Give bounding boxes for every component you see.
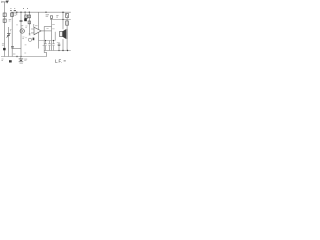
loudspeaker LS1 xyxy=(60,29,68,39)
capacitor ticks right of R1 xyxy=(14,14,16,15)
wire U1 output xyxy=(41,30,51,32)
node H xyxy=(16,56,17,57)
label C1 xyxy=(2,44,5,45)
label near Q1 right xyxy=(25,26,27,27)
variable capacitor VC1 xyxy=(7,33,11,38)
node F xyxy=(62,50,63,51)
label near L2 xyxy=(9,20,12,21)
label R7 xyxy=(56,16,58,17)
capacitor C6 xyxy=(52,41,54,51)
coil L1 xyxy=(3,13,6,17)
node K xyxy=(20,12,21,13)
wire feedback top xyxy=(44,26,51,28)
label small left xyxy=(16,24,18,26)
caption dash xyxy=(64,60,66,62)
transistor Q2 xyxy=(28,38,31,41)
capacitor C5 xyxy=(48,41,50,51)
label dots x29 xyxy=(29,34,31,35)
label below Q1 xyxy=(22,37,24,38)
coil L2 xyxy=(3,19,6,22)
label above ground rail xyxy=(13,53,15,55)
wire mid horizontal xyxy=(39,40,56,42)
resistor R1 xyxy=(11,13,14,17)
capacitor C9 blob xyxy=(33,38,35,41)
label dots top xyxy=(10,7,15,9)
label below battery xyxy=(20,62,23,64)
node J1 xyxy=(10,10,11,11)
wire drop x51.5 xyxy=(51,18,53,50)
node B xyxy=(24,12,25,13)
capacitor C1 polarity blob xyxy=(3,48,6,50)
wire rail jog xyxy=(44,53,46,57)
wire U1 inputs xyxy=(31,29,34,33)
label near x51 top xyxy=(52,24,55,26)
label battery value xyxy=(24,59,27,60)
node M xyxy=(58,50,59,51)
node G xyxy=(67,50,68,51)
right ground rail xyxy=(44,50,71,52)
wire drop x29.3 xyxy=(28,12,30,35)
label below Q2 xyxy=(25,44,27,46)
battery B1 xyxy=(19,57,24,62)
node D xyxy=(62,11,64,13)
capacitor C3 electrolytic body xyxy=(24,18,27,21)
trimmer VR1 xyxy=(25,12,28,18)
transistor Q1 xyxy=(20,29,24,33)
diode D1 xyxy=(66,13,69,17)
capacitor C7 xyxy=(57,42,61,51)
wire speaker return xyxy=(62,39,64,50)
wire drop x21 xyxy=(20,12,22,56)
capacitor C4 xyxy=(44,41,46,51)
wire inv input top xyxy=(33,24,35,27)
label dash above rail xyxy=(14,10,16,12)
node L xyxy=(16,12,17,13)
node E xyxy=(62,19,63,20)
resistor R6 xyxy=(66,21,69,25)
wire antenna down xyxy=(4,2,6,57)
label IC1 xyxy=(35,25,38,27)
label near x51 mid xyxy=(46,28,54,30)
node N xyxy=(45,12,46,13)
resistor R3 xyxy=(28,15,30,18)
label plus C3 xyxy=(23,8,28,10)
left ground rail xyxy=(1,56,47,58)
label minus terminal xyxy=(2,59,4,60)
switch S1 xyxy=(9,60,12,62)
label out xyxy=(43,45,45,47)
label R2 xyxy=(21,26,24,27)
label dots x26 xyxy=(25,37,26,39)
resistor R8 xyxy=(50,16,52,18)
wire drop x38.5 xyxy=(38,12,40,48)
wire left drop xyxy=(11,12,13,56)
capacitor C8 ticks xyxy=(11,47,14,48)
wire speaker feed xyxy=(62,12,64,29)
wire x67 through xyxy=(66,18,68,51)
label R5 xyxy=(46,15,49,16)
label mid small xyxy=(24,52,26,54)
node C xyxy=(29,12,30,13)
antenna AE1 xyxy=(2,1,9,4)
resistor R4 xyxy=(28,21,30,24)
wire mid-left link xyxy=(12,48,21,50)
node I xyxy=(20,56,21,57)
op-amp U1 xyxy=(34,27,41,35)
capacitor C2 xyxy=(20,20,23,21)
node C4 top xyxy=(45,40,46,41)
wire output drop x44.2 xyxy=(43,27,45,53)
label left of drop xyxy=(10,30,12,31)
wire tuning branch xyxy=(8,27,10,57)
top supply rail xyxy=(11,11,71,13)
wire drop x55.2 xyxy=(54,32,56,41)
right sub rail xyxy=(50,19,71,21)
wire stub x16.8 xyxy=(16,12,18,15)
node C6 top xyxy=(53,40,54,41)
svg-text:L.F.: L.F. xyxy=(55,58,62,63)
